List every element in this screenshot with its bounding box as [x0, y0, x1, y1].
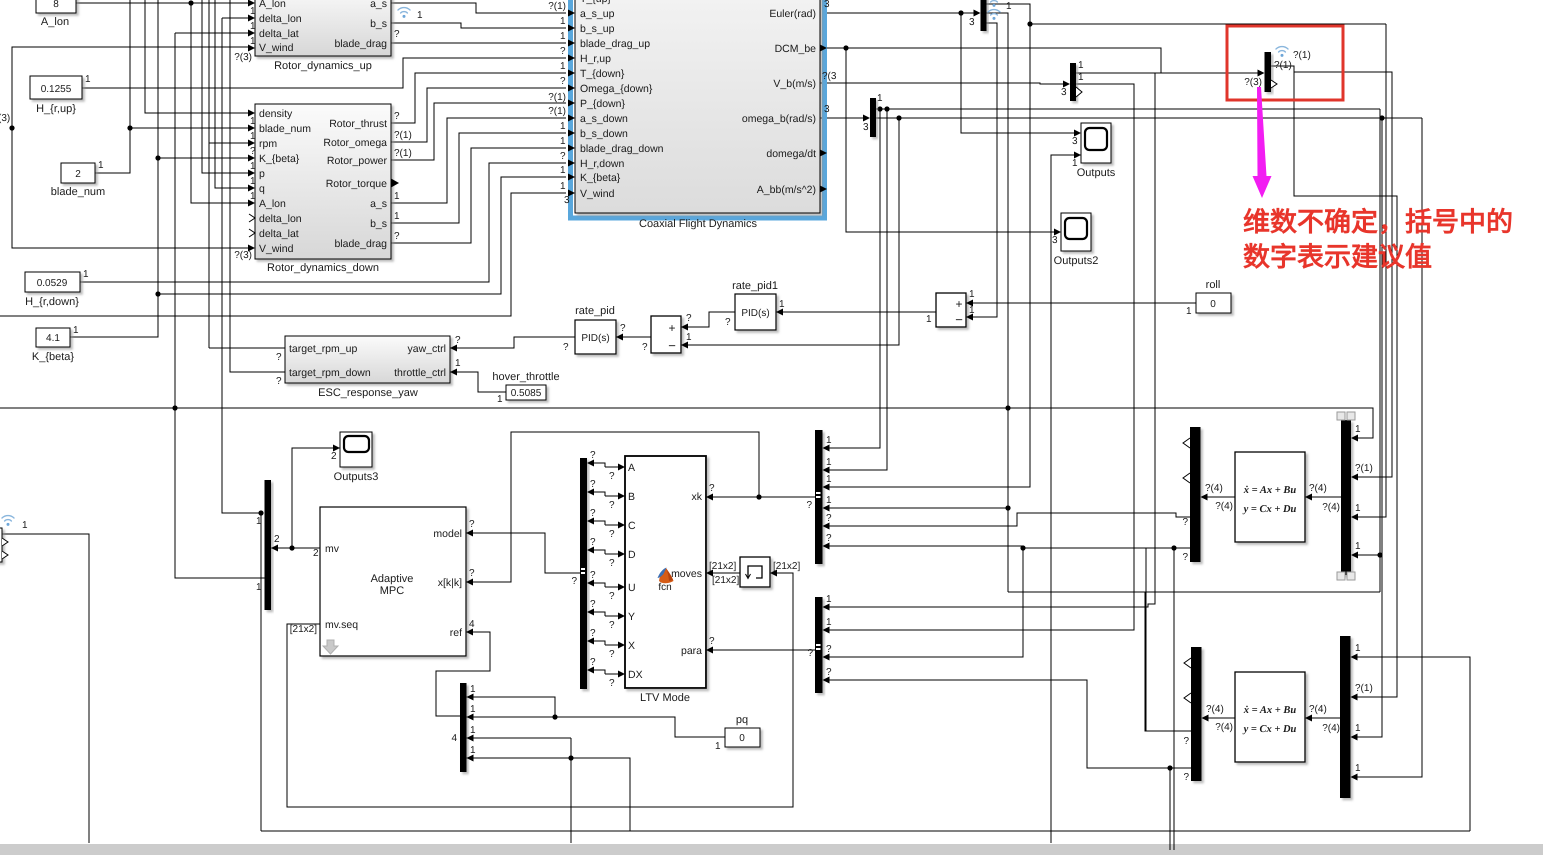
svg-text:H_{r,up}: H_{r,up} [36, 103, 76, 115]
svg-text:blade_drag: blade_drag [334, 38, 387, 50]
svg-text:1: 1 [1355, 503, 1361, 514]
svg-text:?: ? [571, 576, 577, 587]
red highlight box [1227, 26, 1343, 100]
svg-text:a_s_up: a_s_up [580, 8, 615, 20]
svg-text:A_lon: A_lon [41, 16, 69, 28]
wire ss2 to cluster2 demux [1206, 717, 1235, 719]
svg-text:?(4): ?(4) [1309, 704, 1327, 715]
wire sum2 out to rate_pid1 [775, 311, 936, 313]
wire vertical x=175 delta_lat / mux3 feed [175, 33, 265, 578]
subsystem ESC_response_yaw [285, 336, 450, 399]
svg-text:1: 1 [1355, 643, 1361, 654]
svg-text:?(1): ?(1) [1274, 60, 1292, 71]
svg-text:?(3): ?(3) [1244, 77, 1262, 88]
subsystem Rotor_dynamics_up [255, 0, 391, 72]
svg-text:A_lon: A_lon [259, 0, 286, 10]
svg-text:?: ? [725, 317, 731, 328]
mux4 ref mux [460, 683, 467, 772]
svg-text:?(1): ?(1) [394, 130, 412, 141]
wire demux5 out3 down to sum2 plus [966, 23, 997, 317]
wire mux4 port1 [466, 697, 555, 717]
constant roll 0 [1186, 279, 1231, 317]
svg-text:−: − [668, 338, 676, 353]
svg-text:b_s: b_s [370, 218, 387, 230]
port arrow domega/dt unconnected [820, 150, 827, 157]
svg-text:1: 1 [1186, 306, 1192, 317]
svg-text:yaw_ctrl: yaw_ctrl [407, 343, 446, 355]
svg-text:?(4): ?(4) [1322, 502, 1340, 513]
svg-text:1: 1 [470, 725, 476, 736]
svg-text:?: ? [590, 508, 596, 519]
node blade_num junction [127, 125, 132, 130]
svg-text:?(4): ?(4) [1215, 722, 1233, 733]
magenta arrow [1253, 87, 1272, 198]
svg-text:+: + [955, 297, 962, 311]
svg-text:X: X [628, 640, 635, 652]
svg-text:1: 1 [85, 74, 91, 85]
svg-text:0.0529: 0.0529 [37, 278, 68, 289]
svg-text:1: 1 [1355, 541, 1361, 552]
svg-text:?: ? [590, 570, 596, 581]
svg-text:1: 1 [497, 394, 503, 405]
svg-text:?: ? [826, 644, 832, 655]
wire pq to mux4 port2 [466, 717, 725, 737]
svg-text:K_{beta}: K_{beta} [259, 153, 300, 165]
wire K_beta to Rotor_dynamics_down port [158, 157, 249, 159]
scope Outputs [1077, 123, 1116, 179]
svg-text:数字表示建议值: 数字表示建议值 [1243, 242, 1432, 272]
svg-text:a_s: a_s [370, 0, 387, 10]
svg-text:y = Cx + Du: y = Cx + Du [1242, 724, 1297, 735]
svg-text:1: 1 [826, 617, 832, 628]
mpc Adaptive MPC [320, 507, 466, 656]
svg-text:model: model [433, 528, 462, 540]
svg-text:Outputs2: Outputs2 [1054, 255, 1099, 267]
node Euler junction [958, 10, 963, 15]
svg-text:V_wind: V_wind [580, 188, 615, 200]
svg-text:?: ? [609, 591, 615, 602]
svg-text:blade_drag: blade_drag [334, 238, 387, 250]
svg-text:target_rpm_up: target_rpm_up [289, 343, 357, 355]
svg-text:1: 1 [560, 31, 566, 42]
svg-text:0.5085: 0.5085 [511, 388, 542, 399]
svg-text:?: ? [709, 636, 715, 647]
svg-text:[21x2]: [21x2] [290, 624, 317, 635]
svg-text:1: 1 [417, 10, 423, 21]
svg-text:rpm: rpm [259, 138, 277, 150]
svg-text:(3): (3) [0, 113, 10, 124]
wire Rotor_down blade_drag to blade_drag_down [391, 148, 566, 243]
svg-text:3: 3 [1061, 87, 1067, 98]
wire cluster1 demux out y517 to bar1 port5 [827, 513, 1191, 526]
wire DCM branch down to Outputs2 [846, 48, 1057, 232]
svg-text:?(4): ?(4) [1309, 483, 1327, 494]
svg-text:T_{up}: T_{up} [580, 0, 611, 5]
wire vertical x=222 delta_lon / mux3 port1 [222, 18, 261, 513]
svg-text:+: + [668, 321, 675, 335]
constant K_beta value 4.1 [32, 325, 79, 363]
svg-text:V_wind: V_wind [259, 243, 294, 255]
wire Rotor_down a_s to a_s_down [391, 118, 566, 203]
mux6 omega split [870, 98, 876, 137]
svg-text:1: 1 [250, 131, 256, 142]
svg-text:para: para [681, 645, 702, 657]
svg-text:?: ? [1182, 552, 1188, 563]
pid rate_pid [575, 305, 616, 354]
svg-text:ẋ = Ax + Bu: ẋ = Ax + Bu [1243, 485, 1297, 496]
wire V_b out to demux2 [820, 83, 1064, 84]
scope Outputs2 [1054, 213, 1099, 267]
svg-text:Y: Y [628, 611, 635, 623]
svg-text:K_{beta}: K_{beta} [32, 351, 75, 363]
node omega branches [877, 106, 882, 111]
svg-text:delta_lat: delta_lat [259, 28, 299, 40]
svg-text:1: 1 [969, 289, 975, 300]
wire Rotor_power to P_down [391, 103, 566, 160]
svg-text:D: D [628, 549, 636, 561]
wire x1422 down to cluster2 port4 [1356, 118, 1422, 777]
wire sum1 minus long feed [681, 118, 899, 345]
svg-text:density: density [259, 108, 293, 120]
svg-text:?: ? [826, 533, 832, 544]
wire long horizontal y=316 to Coaxial V_wind [0, 193, 566, 316]
svg-text:2: 2 [274, 534, 280, 545]
svg-text:0: 0 [739, 733, 745, 744]
svg-text:Adaptive: Adaptive [371, 573, 414, 585]
svg-text:V_b(m/s): V_b(m/s) [773, 78, 816, 90]
svg-text:?(3: ?(3 [822, 71, 837, 82]
svg-text:LTV Mode: LTV Mode [640, 692, 690, 704]
svg-text:1: 1 [1072, 158, 1078, 169]
constant A_lon value 8 [36, 0, 76, 28]
svg-text:?: ? [590, 479, 596, 490]
svg-text:3: 3 [1052, 235, 1058, 246]
wire x1174 vertical [1173, 548, 1175, 850]
svg-text:1: 1 [826, 435, 832, 446]
svg-text:Rotor_omega: Rotor_omega [323, 137, 387, 149]
svg-text:fcn: fcn [658, 582, 671, 593]
wifi icon Rotor_up b_s log [398, 8, 410, 18]
svg-text:domega/dt: domega/dt [766, 148, 816, 160]
svg-text:xk: xk [692, 491, 703, 503]
svg-text:?: ? [560, 76, 566, 87]
svg-text:?: ? [709, 483, 715, 494]
svg-text:?(1): ?(1) [394, 148, 412, 159]
svg-text:1: 1 [250, 191, 256, 202]
svg-text:H_{r,down}: H_{r,down} [25, 296, 79, 308]
svg-text:H_r,up: H_r,up [580, 53, 611, 65]
demux5 euler [981, 0, 987, 31]
wire demux5 out1 [827, 4, 1030, 487]
svg-text:?: ? [609, 649, 615, 660]
svg-text:?: ? [455, 335, 461, 346]
node x1174 dot [1167, 765, 1172, 770]
svg-text:1: 1 [560, 16, 566, 27]
svg-text:1: 1 [470, 684, 476, 695]
wire mv from MPC to mux3 [271, 547, 320, 549]
subsystem Rotor_dynamics_down [255, 104, 391, 274]
wire hover_throttle to ESC throttle_ctrl [450, 372, 506, 392]
svg-text:ref: ref [450, 627, 462, 639]
port arrows LTV outputs feeds [706, 570, 713, 577]
node K_beta junction [155, 155, 160, 160]
svg-text:−: − [955, 312, 963, 327]
svg-text:?: ? [609, 529, 615, 540]
wire vertical bundle x=130 blade_num [95, 0, 130, 173]
wire vertical x=215 q [215, 0, 249, 188]
svg-text:Rotor_torque: Rotor_torque [326, 178, 387, 190]
svg-text:?: ? [590, 450, 596, 461]
ss block2 [1235, 672, 1305, 762]
wire MPC xkk feedback [466, 432, 759, 582]
svg-text:4: 4 [469, 619, 475, 630]
svg-text:delta_lon: delta_lon [259, 13, 302, 25]
wire mux6 out y109 [875, 108, 1380, 110]
svg-text:?(4): ?(4) [1215, 501, 1233, 512]
wire sum1 out to rate_pid [616, 336, 651, 338]
wire left edge block out down x89 [2, 534, 89, 843]
svg-text:pq: pq [736, 714, 748, 726]
svg-text:1: 1 [250, 176, 256, 187]
svg-text:1: 1 [256, 516, 262, 527]
port arrows Coaxial inputs [568, 10, 575, 17]
node x175 y408 junction [172, 405, 177, 410]
svg-text:?: ? [826, 667, 832, 678]
constant H_r_down value 0.0529 [25, 269, 89, 308]
svg-text:throttle_ctrl: throttle_ctrl [394, 367, 446, 379]
svg-text:delta_lat: delta_lat [259, 228, 299, 240]
port arrows Rotor_up inputs [248, 0, 255, 7]
sum2 block [936, 293, 966, 327]
svg-text:2: 2 [331, 451, 337, 462]
svg-text:[21x2]: [21x2] [712, 575, 739, 586]
svg-text:roll: roll [1206, 279, 1221, 291]
wire cluster1 demux out y548 to bar1 port6 [827, 546, 1191, 548]
svg-text:?: ? [560, 151, 566, 162]
svg-text:1: 1 [826, 594, 832, 605]
wire A_lon const to Rotor_dynamics_up [76, 2, 249, 4]
wire mux1 to ss1 [1310, 496, 1341, 498]
wire bar1 output to LTV xk [706, 496, 815, 498]
subsystem Coaxial Flight Dynamics selected [571, 0, 825, 230]
svg-text:2: 2 [313, 548, 319, 559]
svg-text:Rotor_dynamics_down: Rotor_dynamics_down [267, 262, 379, 274]
wire ESC target_rpm_up out [209, 347, 285, 349]
wire y592 horizontal [1008, 591, 1380, 593]
wire x1386 down to cluster1 mux port3 [1356, 24, 1386, 517]
svg-text:0.1255: 0.1255 [41, 84, 72, 95]
svg-text:3: 3 [824, 104, 830, 115]
mux bar1 right of LTV upper [815, 430, 823, 564]
svg-text:1: 1 [83, 269, 89, 280]
node mv branch [289, 545, 294, 550]
wire Rotor_up a_s to Coaxial a_s_up [391, 3, 566, 13]
wire x887 down to bar1 port2 [827, 109, 887, 470]
node x571 port4 junction [568, 755, 573, 760]
svg-text:1: 1 [256, 582, 262, 593]
svg-text:hover_throttle: hover_throttle [492, 371, 559, 383]
wire K_beta to Coaxial K_beta staircase [158, 177, 566, 294]
svg-text:?: ? [1183, 736, 1189, 747]
pid rate_pid1 [732, 280, 778, 330]
node K_beta lower junction [155, 291, 160, 296]
wire x1170 pair vertical [1169, 768, 1171, 850]
svg-text:moves: moves [671, 568, 702, 580]
svg-text:C: C [628, 520, 636, 532]
port arrow A_bb out [820, 186, 827, 193]
wire vertical x=145 density [145, 0, 249, 113]
cluster2 demux [1191, 647, 1202, 781]
svg-text:1: 1 [1355, 763, 1361, 774]
svg-text:Rotor_power: Rotor_power [327, 155, 388, 167]
svg-text:blade_num: blade_num [259, 123, 311, 135]
svg-text:?: ? [609, 500, 615, 511]
wire mux3 out1 down to y831 [260, 513, 262, 831]
svg-text:?(1): ?(1) [548, 92, 566, 103]
svg-text:1: 1 [969, 305, 975, 316]
svg-text:K_{beta}: K_{beta} [580, 172, 621, 184]
wire Outputs port2 feed x1051 [1051, 155, 1081, 843]
wire LTV para feed from bar2 [706, 649, 815, 651]
wire ss1 to cluster1 demux [1205, 496, 1235, 498]
svg-text:ẋ = Ax + Bu: ẋ = Ax + Bu [1243, 705, 1297, 716]
wire x1380 down to y592 [1379, 109, 1381, 592]
svg-text:?: ? [469, 568, 475, 579]
wire mux4 port4 [466, 758, 630, 831]
svg-text:Rotor_dynamics_up: Rotor_dynamics_up [274, 60, 372, 72]
svg-text:H_r,down: H_r,down [580, 158, 625, 170]
svg-text:?: ? [250, 146, 256, 157]
svg-text:?(1): ?(1) [1355, 463, 1373, 474]
wire y831 long horizontal [261, 830, 1470, 832]
svg-text:?: ? [609, 471, 615, 482]
svg-text:b_s_up: b_s_up [580, 23, 615, 35]
wire DCM_be out [820, 48, 1161, 73]
wire x1470 up to cluster2 port1 [1356, 657, 1470, 831]
cluster1 mux selected [1341, 420, 1351, 575]
svg-text:?: ? [806, 500, 812, 511]
svg-text:y = Cx + Du: y = Cx + Du [1242, 504, 1297, 515]
svg-text:0: 0 [1210, 299, 1216, 310]
svg-text:1: 1 [1355, 723, 1361, 734]
svg-text:1: 1 [560, 121, 566, 132]
svg-text:1: 1 [1078, 72, 1084, 83]
svg-text:PID(s): PID(s) [581, 333, 609, 344]
svg-text:1: 1 [250, 6, 256, 17]
svg-text:b_s_down: b_s_down [580, 128, 628, 140]
wire H_r_down 0.0529 staircase [80, 163, 566, 282]
svg-text:?(4): ?(4) [1206, 704, 1224, 715]
svg-text:1: 1 [826, 495, 832, 506]
svg-text:V_wind: V_wind [259, 42, 294, 54]
svg-text:?: ? [807, 648, 813, 659]
wire Rotor_up blade_drag to Coaxial [391, 42, 566, 44]
svg-text:?: ? [469, 519, 475, 530]
svg-text:B: B [628, 491, 635, 503]
svg-text:4.1: 4.1 [46, 333, 60, 344]
svg-text:?: ? [276, 352, 282, 363]
svg-text:U: U [628, 582, 636, 594]
svg-text:T_{down}: T_{down} [580, 68, 625, 80]
svg-text:?(4): ?(4) [1322, 723, 1340, 734]
mux3 demux of mv [265, 480, 272, 610]
svg-text:?(4): ?(4) [1205, 483, 1223, 494]
svg-text:?: ? [560, 46, 566, 57]
svg-text:1: 1 [22, 520, 28, 531]
svg-text:target_rpm_down: target_rpm_down [289, 367, 371, 379]
svg-text:p: p [259, 168, 265, 180]
wire Rotor_thrust to T_down [391, 73, 566, 123]
wire cluster2 demux upper out [1146, 548, 1191, 731]
svg-text:1: 1 [470, 704, 476, 715]
wire long horizontal y=408 [0, 408, 1373, 438]
svg-text:?: ? [394, 231, 400, 242]
svg-text:P_{down}: P_{down} [580, 98, 625, 110]
svg-text:1: 1 [1355, 424, 1361, 435]
svg-text:?: ? [609, 678, 615, 689]
constant blade_num value 2 [51, 160, 105, 198]
wire demux5 out2 long vertical [986, 13, 1008, 592]
svg-text:?: ? [620, 323, 626, 334]
svg-text:?: ? [609, 620, 615, 631]
svg-text:q: q [259, 183, 265, 195]
svg-text:a_s_down: a_s_down [580, 113, 628, 125]
svg-text:1: 1 [394, 191, 400, 202]
svg-text:3: 3 [1072, 136, 1078, 147]
wire delay out to LTV moves [712, 572, 740, 574]
wire H_r_up 0.1255 staircase [82, 58, 566, 88]
red mux in red box [1265, 52, 1272, 92]
svg-text:8: 8 [53, 0, 59, 10]
scope Outputs3 [334, 432, 379, 483]
svg-text:1: 1 [250, 21, 256, 32]
wire Rotor_down b_s to b_s_down [391, 133, 566, 223]
svg-text:?: ? [1182, 517, 1188, 528]
wire blade_num to port [130, 127, 249, 129]
wire vertical x=202 p [202, 0, 249, 173]
cluster1 demux [1190, 427, 1201, 562]
svg-text:1: 1 [560, 61, 566, 72]
svg-text:?: ? [276, 376, 282, 387]
svg-text:1: 1 [926, 314, 932, 325]
wire delta_lat stub [175, 32, 249, 34]
scrollbar [0, 844, 1543, 855]
svg-text:1: 1 [779, 299, 785, 310]
mux model LTV bus [580, 458, 587, 689]
svg-text:?(3): ?(3) [234, 250, 252, 261]
svg-text:x[k|k]: x[k|k] [438, 577, 462, 589]
svg-text:1: 1 [394, 211, 400, 222]
node DCM junction [843, 45, 848, 50]
wire mv.seq to delay [287, 573, 793, 807]
svg-text:?: ? [590, 657, 596, 668]
svg-text:?: ? [1183, 772, 1189, 783]
svg-text:PID(s): PID(s) [741, 308, 769, 319]
wire mux2 to ss2 [1310, 717, 1340, 719]
wire x1382 down to cluster2 port3 [1379, 115, 1384, 120]
svg-text:?: ? [686, 313, 692, 324]
wire x571 vertical [570, 738, 572, 843]
unconnected inputs delta_lon delta_lat [249, 214, 255, 222]
svg-text:DX: DX [628, 669, 643, 681]
wire vertical x=191 A_lon down [191, 3, 249, 203]
svg-text:Omega_{down}: Omega_{down} [580, 83, 653, 95]
wire demux2 out y73 to red mux [1076, 72, 1262, 74]
svg-text:rate_pid: rate_pid [575, 305, 615, 317]
svg-text:?: ? [826, 513, 832, 524]
wire delta_lon stub [222, 17, 249, 19]
wire Rotor_up b_s to Coaxial b_s_up [391, 23, 566, 28]
